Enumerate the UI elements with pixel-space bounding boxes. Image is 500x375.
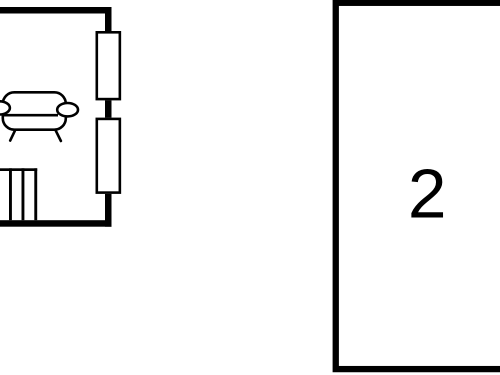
sofa body [3, 92, 66, 129]
room 2 outline [336, 3, 500, 369]
sofa leg right [56, 131, 61, 141]
wall right mid stub (between windows) [105, 100, 112, 117]
window W1 [97, 32, 120, 99]
window W2 [97, 119, 120, 193]
sofa armrest right [57, 103, 78, 116]
sofa armrest left [0, 101, 10, 114]
wall bottom (left room) [0, 220, 112, 227]
stairs step line 3 [34, 168, 37, 220]
stairs [0, 168, 37, 220]
stairs step line 2 [22, 168, 25, 220]
sofa [0, 92, 78, 141]
wire [0, 7, 112, 227]
stairs step line 1 [9, 168, 12, 220]
wall right upper stub [105, 7, 112, 32]
svg-text:2: 2 [408, 155, 447, 233]
sofa seat line [2, 114, 59, 117]
stairs top edge [0, 168, 37, 171]
sofa leg left [10, 131, 15, 141]
wall right lower stub [105, 194, 112, 227]
wall top (left room) [0, 7, 112, 14]
